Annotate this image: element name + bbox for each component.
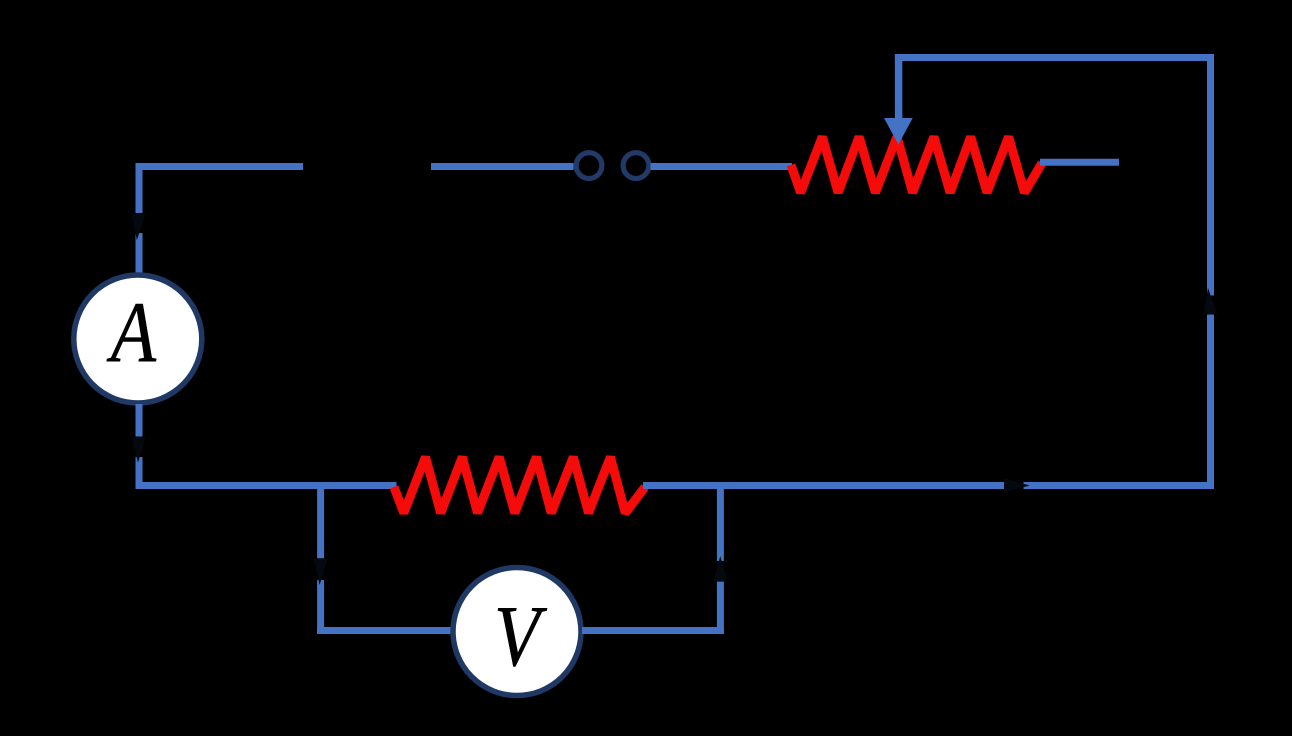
svg-text:V: V: [494, 587, 548, 684]
wire: left vertical, into ammeter top: [136, 233, 143, 275]
wire: top horizontal (wiper to top-right corner): [895, 54, 1214, 61]
wire: left vertical below ammeter: [136, 404, 143, 437]
current arrow (down) on voltmeter left drop: [314, 559, 328, 586]
wire: voltmeter branch, right drop upper: [717, 482, 724, 561]
wire: bottom horizontal, left corner to resistor R2: [136, 482, 397, 489]
ammeter U1: [74, 275, 202, 403]
wire: voltmeter branch, right drop lower: [717, 581, 724, 634]
wire: top horizontal from corner to battery: [136, 163, 304, 170]
switch S1 terminal circle left: [576, 153, 602, 179]
wire: voltmeter loop bottom right: [582, 627, 724, 634]
wire: right vertical upper segment: [1207, 54, 1214, 296]
current arrow (up) on right vertical wire: [1203, 288, 1217, 314]
wire: right vertical lower segment: [1207, 315, 1214, 490]
wire: top horizontal from switch to rheostat: [651, 163, 793, 170]
wire: left vertical to bottom-left corner: [136, 457, 143, 489]
wire: voltmeter branch, left drop upper: [317, 482, 324, 558]
wire: voltmeter loop bottom left: [317, 627, 452, 634]
rheostat R1 (zigzag resistive element): [791, 137, 1042, 193]
rheostat wiper arm: vertical stem from top wire: [895, 54, 903, 119]
wire: voltmeter branch, left drop lower: [317, 580, 324, 634]
current arrow (up) on voltmeter right drop: [713, 556, 727, 582]
battery B1 (black on black, invisible): [303, 136, 431, 197]
switch S1 terminal circle right: [623, 153, 649, 179]
rheostat wiper arrowhead (down onto element): [884, 118, 913, 145]
wire: rheostat right lead (unused stub): [1040, 159, 1119, 166]
current arrow (down) on left wire below ammeter: [132, 437, 146, 463]
wire: bottom horizontal, arrow to bottom-right corner: [1024, 482, 1215, 489]
wire: bottom horizontal, resistor to current arrow: [643, 482, 1004, 489]
current arrow (down) on left wire above ammeter: [132, 214, 146, 241]
svg-text:A: A: [106, 283, 156, 380]
wire: left vertical, top segment (node corner to arrow): [136, 163, 143, 213]
current arrow (right) on bottom wire: [1004, 479, 1030, 493]
wire: top horizontal from battery to switch: [431, 163, 574, 170]
resistor R2 (zigzag): [394, 457, 645, 513]
voltmeter U2: [453, 568, 581, 696]
